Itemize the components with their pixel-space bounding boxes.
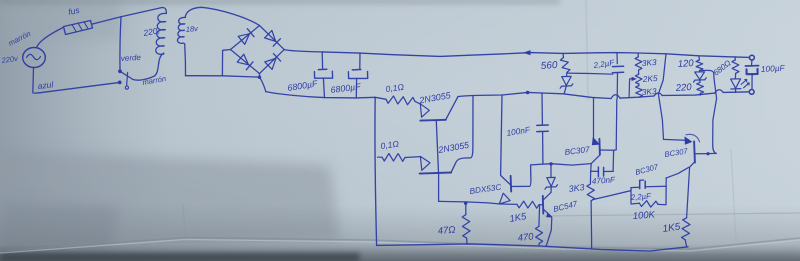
wire top rail down to Q6 [658,54,666,140]
wire zener junction to 2.2uF bottom [567,73,612,74]
wire azul from AC bottom to switch [33,68,118,94]
svg-text:verde: verde [121,53,142,63]
resistor 47 ohm [465,202,467,215]
resistor 0.1 ohm upper [386,96,415,105]
feedback network box [631,188,639,204]
wire Q6 emitter horizontal [664,138,685,141]
wire Q5 collector to ref node [591,155,600,171]
capacitor 2,2uF [616,53,618,64]
bridge rectifier diode D4 (bottom-right) [260,50,285,74]
wire Q1 collector to mid rail [446,97,458,120]
wire top positive rail [284,50,749,58]
LED arrows [741,80,747,85]
wire bridge bottom to minus bus [260,77,266,91]
wire mid rail down to BDX collector side [501,95,510,184]
bottom dark band [0,205,800,261]
svg-text:470nF: 470nF [592,175,617,186]
wire Q2 collector up to mid rail [451,96,473,172]
resistor 3K3 upper [637,53,639,57]
transistor Q6 arc [686,134,700,141]
wire Q5 base loop to 470nF [600,150,616,172]
transistor Q6 BC307 base bar [693,141,696,162]
bridge rectifier diode D2 (top-right) [260,26,285,50]
junction dot Q6 base wire [706,152,709,155]
resistor 3K3 reference [589,171,591,184]
wire BC547 emitter with arrow [544,209,552,216]
capacitor C5 100uF [751,60,753,64]
wire to Q2 emitter [405,156,421,159]
zener diode ZD3 [699,70,701,71]
transformer secondary coil 18v [177,17,185,43]
wire verde vertical to switch [120,17,121,71]
wire left vertical of output loop [375,97,377,245]
wire 3K3 down to bottom bus [590,201,593,249]
capacitor C1 6800uF [321,52,323,68]
trimmer wiper arrow [632,77,637,81]
trimmer 2K5 [638,70,640,74]
resistor 120 [698,56,700,60]
zener diode ZD2 [566,72,568,75]
wire 3K3 node to feedback box [593,191,631,200]
svg-text:47Ω: 47Ω [437,224,456,237]
transistor Q5 BC307 base bar [598,139,601,155]
transistor Q5 BC307 emitter arrow [592,137,600,145]
wire to Q1 emitter [415,101,421,104]
transistor Q3 BDX53C emitter arrow [499,193,510,204]
svg-text:2,2µF: 2,2µF [630,192,653,203]
svg-text:100µF: 100µF [761,63,786,74]
resistor 680 [734,57,736,60]
wire lower bus from bridge to filter caps [266,92,386,100]
transistor Q1 2N3055 base bar [420,119,446,122]
svg-text:18v: 18v [185,24,199,34]
junction dot 47 ohm tap [464,202,467,205]
svg-text:3K3: 3K3 [568,182,585,194]
resistor 560 [562,53,565,57]
wire reference node horizontal [531,164,591,166]
resistor 0.1 ohm lower [378,156,383,158]
transistor Q4 BC547 base bar [542,196,545,214]
capacitor C2 6800uF [359,53,361,68]
arrow mark on top rail [523,50,531,55]
capacitor C4 470nF [597,167,599,176]
wire BDX to 100nF node [511,165,530,186]
wire marron from switch to primary bottom [133,64,159,81]
svg-text:azul: azul [37,79,55,91]
resistor 1K5 output [682,218,691,240]
transistor Q6 BC307 emitter arrow [685,136,693,144]
wire Q1 base down to Q2 [436,121,438,201]
bridge rectifier diode D3 (bottom-left) [231,50,260,74]
wire Q6 base to zener junction [695,70,717,153]
node junction below bridge [258,76,261,79]
svg-text:470: 470 [517,231,535,244]
output terminal minus [749,90,754,95]
svg-text:220: 220 [674,82,692,94]
wire Q6 collector down to 1K5 [687,162,695,218]
wire box to BC307 Q6 node [666,167,688,178]
wire AC lower run to bridge bottom node [186,76,260,77]
switch S1 [118,69,122,73]
capacitor 100nF [541,93,543,125]
resistor 1K5 horizontal [517,201,539,208]
wire AC top to fuse [37,28,64,48]
wire 2.2uF down to BC307 loop [615,100,618,150]
LED D5 [734,73,736,78]
resistor 470 [538,205,541,226]
resistor 3K3 lower [638,84,640,86]
fuse F1 [64,21,93,35]
wire mid rail (output +) [458,92,611,98]
transistor Q2 2N3055 base bar [420,173,452,174]
transformer primary coil 220 [156,13,167,54]
resistor 220 [699,80,701,82]
output terminal plus [750,55,755,60]
transistor Q1 2N3055 emitter arrow [420,104,429,117]
svg-text:2K5: 2K5 [641,73,658,84]
svg-text:560: 560 [540,60,558,72]
wire base drive line to BDX [439,201,499,204]
wire bridge left vertex down [222,50,230,76]
wire secondary top to bridge [185,7,259,25]
svg-text:120: 120 [677,58,694,70]
capacitor 2,2uF feedback [639,180,641,188]
bottom-left shadow region [0,0,340,255]
svg-text:3K3: 3K3 [641,57,657,68]
junction dot zener top [549,162,552,165]
bridge rectifier diode D1 (top-left) [231,26,260,50]
wire fuse to transformer primary [93,7,167,24]
zener diode ZD1 [550,164,552,178]
wire bottom ground bus [377,244,688,251]
svg-text:100K: 100K [632,209,656,222]
svg-text:3K3: 3K3 [641,86,657,97]
wire mid rail to BC307 Q5 emitter [593,98,595,138]
junction dot mid rail [526,91,530,95]
transistor Q2 2N3055 emitter arrow [420,156,430,170]
wire secondary bottom [184,44,187,76]
transistor Q3 BDX53C base bar [510,176,513,192]
AC source V1 220v [23,48,46,68]
wire BC547 collector [544,192,551,199]
